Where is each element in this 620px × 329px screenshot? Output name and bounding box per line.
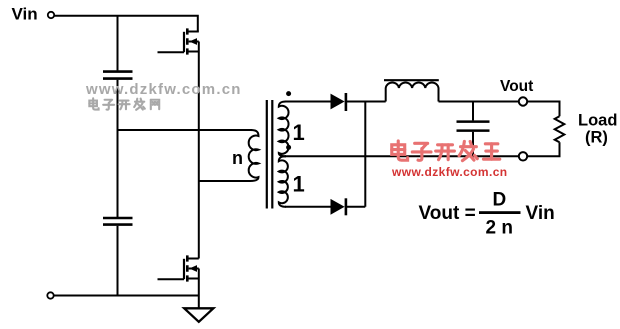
wire switch node vertical (Q1 source to Q2 drain): [198, 42, 200, 259]
wire secondary top to diode D1: [285, 101, 331, 103]
wire top rail from Vin to Q1 drain: [54, 16, 198, 32]
wire load bottom to return terminal: [527, 142, 559, 156]
transformer secondary winding 1 (top): [279, 102, 289, 157]
wire secondary bottom to diode D2: [285, 206, 331, 208]
capacitor C2 (lower bus capacitor): [103, 218, 133, 225]
capacitor C3 (output filter): [457, 102, 490, 157]
svg-text:www.dzkfw.com.cn: www.dzkfw.com.cn: [85, 81, 242, 98]
svg-text:n: n: [232, 148, 243, 168]
wire inductor to Vout terminal: [439, 101, 519, 103]
wire left branch upper (rail to C1): [117, 16, 119, 71]
resistor Load R: [555, 116, 565, 142]
svg-text:Vout =: Vout =: [419, 203, 476, 224]
node bottom input terminal: [47, 292, 53, 298]
diode D2 (bottom rectifier): [331, 198, 346, 215]
svg-text:(R): (R): [585, 128, 608, 146]
wire D1 cathode to inductor: [347, 101, 386, 103]
capacitor C1 (upper bus capacitor): [103, 72, 133, 79]
svg-text:1: 1: [293, 120, 305, 145]
transistor Q1 (high-side MOSFET): [158, 28, 199, 54]
wire Q2 source to bottom rail and ground stub: [198, 269, 200, 309]
transformer secondary winding 2 (bottom): [279, 156, 288, 207]
inductor L1 core bar: [384, 79, 439, 81]
wire rectifier junction vertical: [364, 102, 366, 207]
wire capacitor midpoint to transformer primary: [118, 129, 253, 131]
wire center tap to output return: [285, 155, 519, 157]
svg-text:www.dzkfw.com.cn: www.dzkfw.com.cn: [391, 165, 508, 179]
svg-text:Vin: Vin: [12, 5, 38, 24]
transistor Q2 (low-side MOSFET): [158, 255, 199, 281]
formula Vout = D/(2n) Vin: [419, 190, 555, 239]
inductor L1: [386, 82, 439, 101]
watermark red chinese 电子开发王: [392, 141, 500, 161]
wire transformer primary return to switch node: [199, 180, 250, 182]
wire C1 to midpoint: [117, 80, 119, 130]
svg-text:Vin: Vin: [526, 203, 555, 224]
wire Vout terminal to load: [527, 102, 559, 117]
phase dot secondary 2: [286, 145, 291, 150]
node Vout terminal: [519, 97, 527, 105]
svg-text:2 n: 2 n: [486, 218, 513, 239]
ground: [184, 308, 213, 322]
svg-text:1: 1: [293, 172, 305, 197]
wire C2 to bottom rail: [117, 226, 119, 296]
diode D1 (top rectifier): [331, 93, 346, 111]
node output return terminal: [519, 152, 527, 160]
svg-text:Vout: Vout: [500, 78, 533, 95]
node Vin input terminal: [48, 12, 54, 18]
watermark gray chinese 电子开发网: [89, 98, 159, 109]
phase dot secondary 1: [286, 91, 291, 96]
svg-text:Load: Load: [578, 111, 617, 129]
svg-text:D: D: [493, 190, 507, 211]
wire bottom rail: [54, 295, 199, 297]
wire D2 cathode to rectifier junction: [347, 206, 365, 208]
transformer T1 primary winding: [249, 130, 259, 181]
wire left branch lower (midpoint to C2): [117, 130, 119, 217]
transformer core: [267, 100, 273, 209]
